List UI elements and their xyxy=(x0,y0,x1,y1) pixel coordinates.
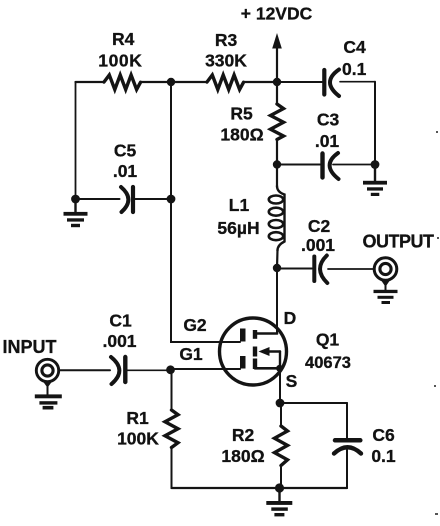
resistor R3 xyxy=(207,75,244,90)
ground bottom xyxy=(266,488,292,516)
resistor R5 xyxy=(271,104,284,140)
scan speck 2 xyxy=(437,237,439,239)
svg-text:C1: C1 xyxy=(109,310,132,330)
Q1 channel middle segment xyxy=(253,347,257,357)
svg-text:R5: R5 xyxy=(230,103,253,123)
wire top rail left of R4 xyxy=(76,81,105,83)
wire C5 right to rail xyxy=(135,198,171,200)
wire R4 right to node xyxy=(141,81,172,83)
svg-text:C5: C5 xyxy=(114,141,137,161)
capacitor C4 xyxy=(324,70,339,97)
wire bottom rail xyxy=(172,487,348,489)
svg-text:+ 12VDC: + 12VDC xyxy=(241,4,313,24)
wire R2 bottom xyxy=(280,466,282,489)
svg-text:R4: R4 xyxy=(112,29,135,49)
node right rail / C3 xyxy=(371,160,380,169)
junction dot source-substrate xyxy=(276,365,283,372)
wire G1 lead xyxy=(171,368,241,370)
svg-text:100K: 100K xyxy=(98,51,142,71)
wire C3 right to right rail xyxy=(333,164,375,166)
wire source vertical xyxy=(279,368,281,403)
capacitor C5 xyxy=(121,187,133,212)
wire R3 right to V+ node xyxy=(244,81,278,83)
wire left rail xyxy=(75,82,77,199)
ground below C5 xyxy=(64,199,88,227)
Q1 source lead inside xyxy=(255,367,280,370)
wire input to C1 xyxy=(59,369,111,371)
svg-text:R3: R3 xyxy=(215,30,238,50)
wire V+ node to C4 xyxy=(277,81,322,83)
node drain / C2 junction xyxy=(273,264,281,272)
svg-text:.001: .001 xyxy=(102,331,136,351)
wire C6 bottom vertical xyxy=(346,450,348,488)
wire V+ node to R5 xyxy=(276,82,278,104)
capacitor C2 xyxy=(314,256,327,284)
svg-text:.001: .001 xyxy=(301,235,335,255)
svg-text:L1: L1 xyxy=(229,195,250,215)
svg-text:0.1: 0.1 xyxy=(342,59,367,79)
svg-text:56µH: 56µH xyxy=(217,218,259,238)
scan speck 3 xyxy=(434,385,436,387)
wire C4 right to corner xyxy=(340,81,375,83)
wire G2 rail with bend to gate xyxy=(171,82,240,342)
wire node to R2 xyxy=(280,403,282,426)
svg-text:INPUT: INPUT xyxy=(3,337,57,357)
V+ arrow head xyxy=(272,33,282,49)
svg-text:Q1: Q1 xyxy=(316,329,340,349)
Q1 gate-2 bar xyxy=(240,329,246,342)
svg-text:G2: G2 xyxy=(183,315,207,335)
wire node to R1 xyxy=(171,370,173,410)
wire drain vertical xyxy=(276,268,278,334)
wire C2 to output jack xyxy=(328,268,374,270)
svg-text:C2: C2 xyxy=(308,216,331,236)
Q1 channel bottom segment xyxy=(253,359,257,370)
wire C1 to G1 node xyxy=(128,369,171,371)
input connector J1 xyxy=(36,359,58,381)
node V+ junction xyxy=(273,78,281,86)
node C5 on G2 rail xyxy=(167,195,176,204)
capacitor C1 xyxy=(111,357,125,384)
svg-text:C3: C3 xyxy=(317,109,340,129)
svg-text:C4: C4 xyxy=(343,37,366,57)
output connector J2 xyxy=(374,258,397,281)
node bottom ground junction xyxy=(275,483,284,492)
svg-text:S: S xyxy=(286,371,298,391)
svg-text:.01: .01 xyxy=(113,161,138,181)
Q1 substrate arrow xyxy=(259,347,281,368)
svg-text:330K: 330K xyxy=(205,50,247,70)
scan speck 1 xyxy=(436,131,438,133)
svg-text:R1: R1 xyxy=(126,408,149,428)
inductor L1 xyxy=(269,186,285,251)
resistor R2 xyxy=(275,426,288,466)
svg-text:0.1: 0.1 xyxy=(371,446,396,466)
wire node to C2 xyxy=(277,268,312,270)
wire C3 node to L1 xyxy=(276,165,278,187)
svg-text:.01: .01 xyxy=(315,131,340,151)
svg-text:100K: 100K xyxy=(117,429,159,449)
svg-text:G1: G1 xyxy=(179,344,203,364)
Q1 drain lead inside xyxy=(255,332,277,335)
capacitor C6 xyxy=(334,440,361,453)
node G2 rail top xyxy=(167,78,175,86)
node C5 left / ground xyxy=(71,195,80,204)
svg-text:180Ω: 180Ω xyxy=(221,446,264,466)
node G1 / R1 junction xyxy=(166,365,175,374)
wire node to C3 xyxy=(277,164,320,166)
wire V+ arrow shaft xyxy=(276,46,278,82)
resistor R4 xyxy=(104,75,141,90)
capacitor C3 xyxy=(323,153,339,179)
svg-text:OUTPUT: OUTPUT xyxy=(363,231,435,251)
wire R5 bottom to C3 node xyxy=(276,140,278,165)
wire node to R3 xyxy=(171,81,207,83)
wire L1 bottom to drain node xyxy=(276,250,279,268)
ground below right rail xyxy=(363,165,387,197)
svg-text:40673: 40673 xyxy=(305,354,351,372)
ground below output xyxy=(374,280,398,304)
svg-text:180Ω: 180Ω xyxy=(220,124,263,144)
scan speck 4 xyxy=(435,513,438,515)
Q1 gate-1 bar xyxy=(240,356,246,369)
wire C6 top vertical xyxy=(346,403,348,439)
svg-text:D: D xyxy=(284,308,297,328)
Q1 channel top segment xyxy=(253,330,257,339)
svg-text:R2: R2 xyxy=(232,425,255,445)
node source junction xyxy=(276,399,285,408)
wire C5 left xyxy=(76,198,120,200)
transistor Q1 body circle xyxy=(220,318,287,385)
wire right rail down xyxy=(374,82,376,165)
wire R1 bottom xyxy=(171,448,173,489)
resistor R1 xyxy=(165,410,178,448)
node C3 left junction xyxy=(273,160,281,168)
svg-text:C6: C6 xyxy=(372,425,395,445)
ground below input xyxy=(35,382,62,410)
wire source node to C6 top xyxy=(280,402,347,404)
